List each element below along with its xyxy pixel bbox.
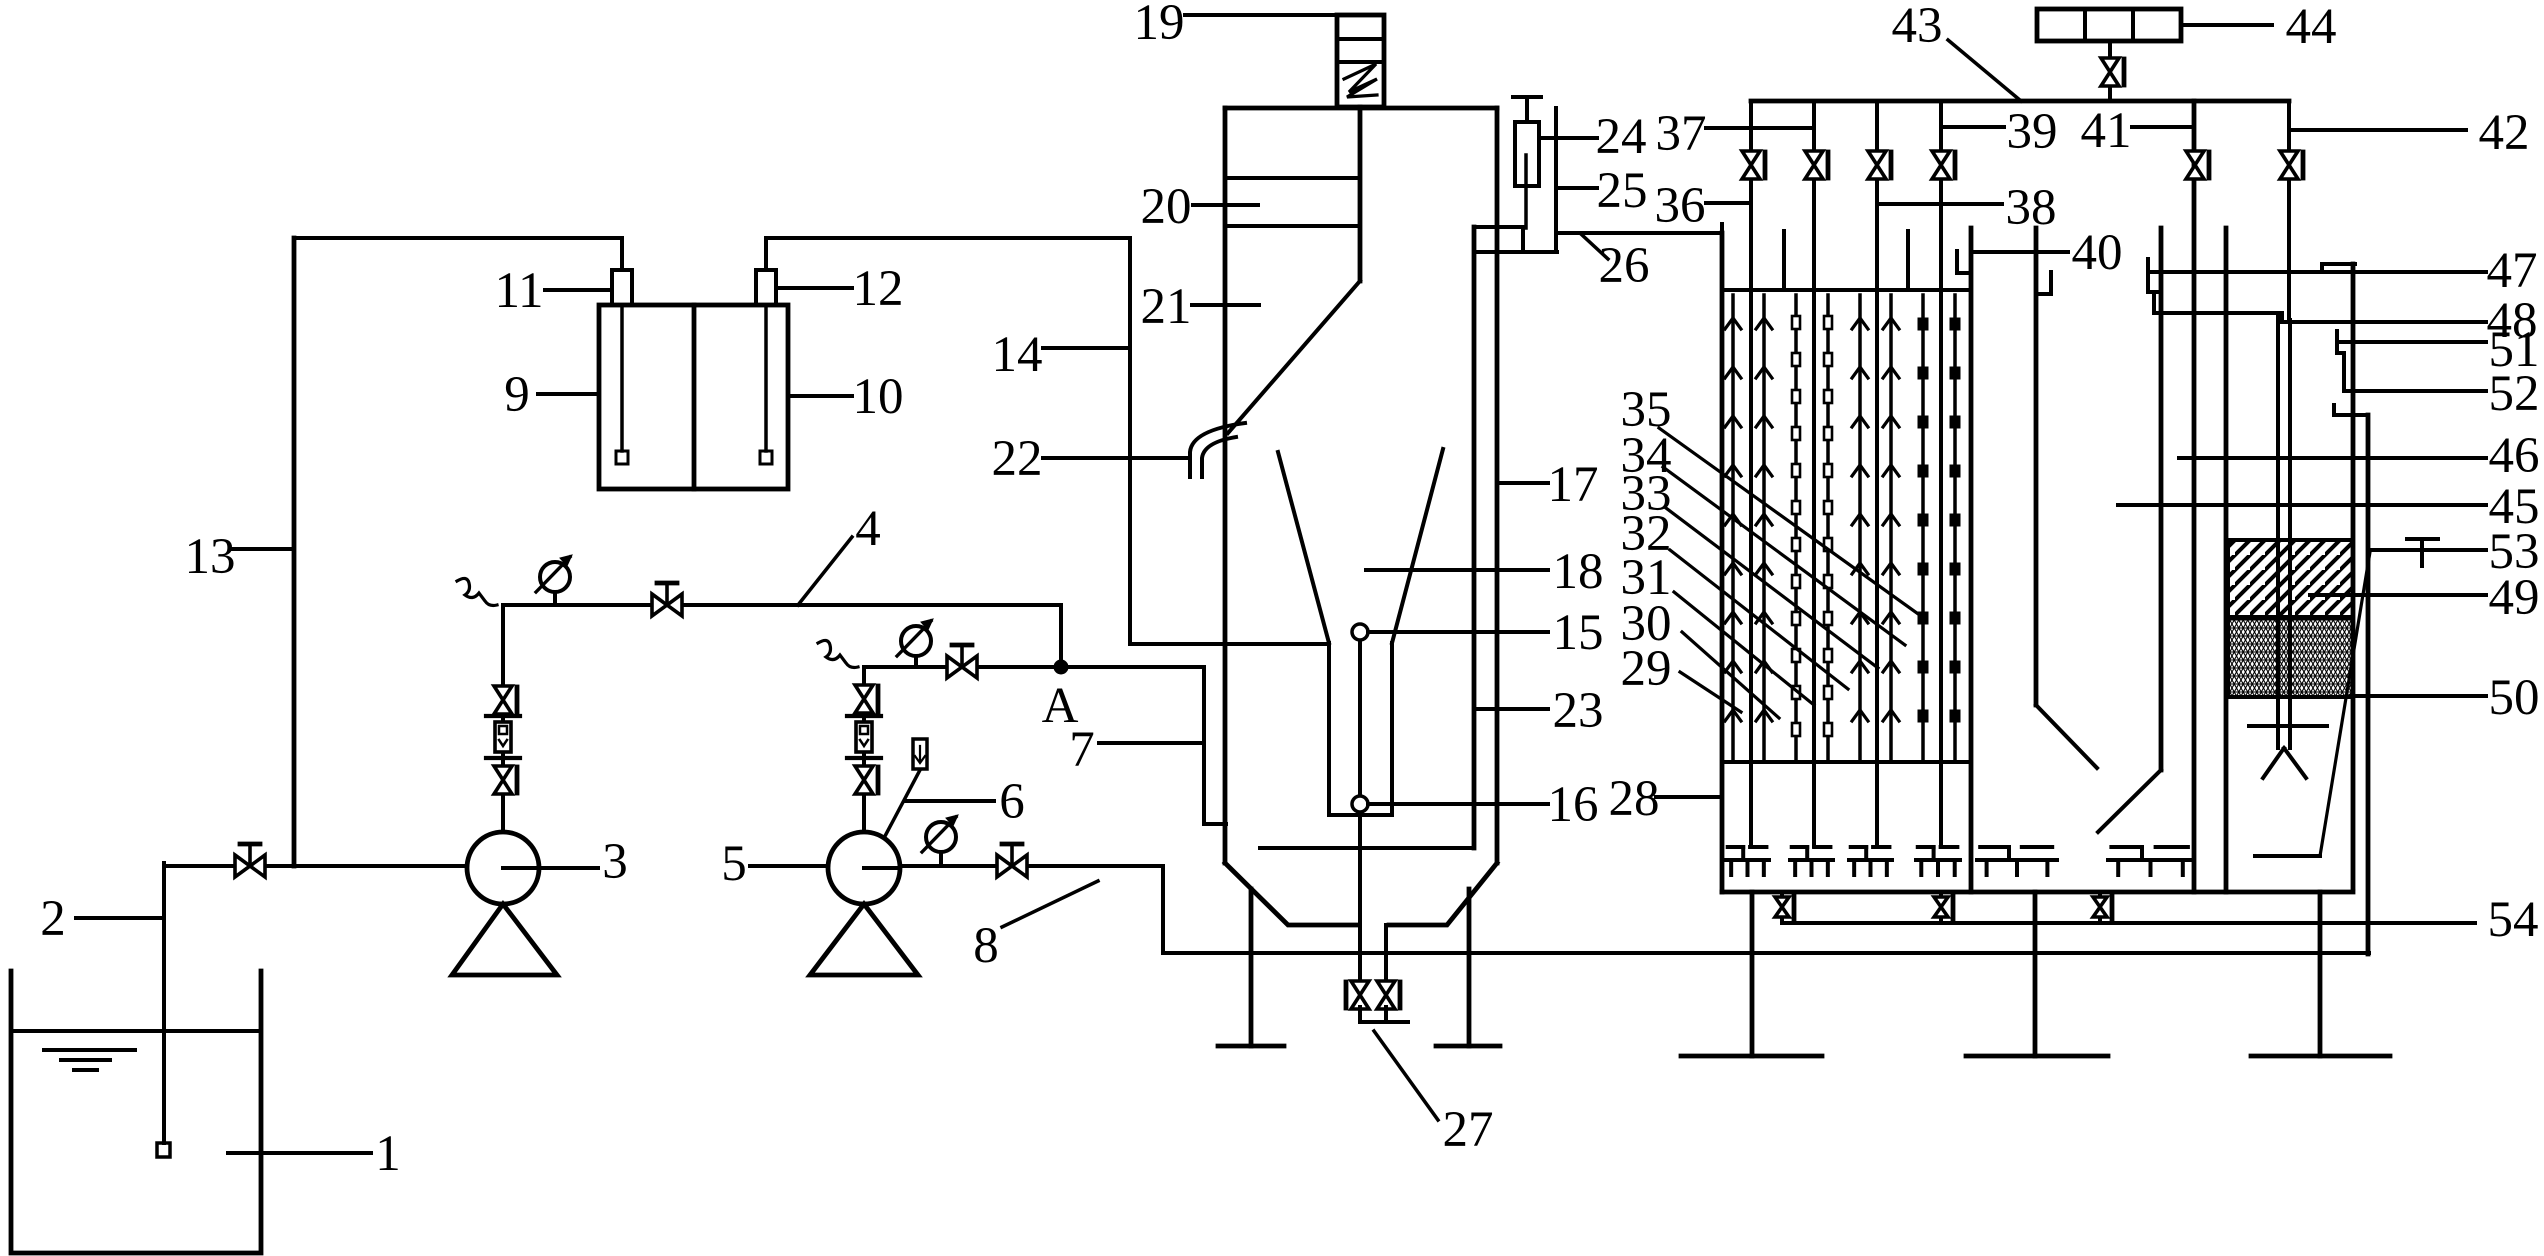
label 32 (1670, 550, 1848, 689)
riser diagonal (1228, 281, 1360, 433)
filter wall top lip (2322, 262, 2355, 266)
drain drop 3 (2098, 892, 2102, 923)
label 21 (1192, 303, 1259, 307)
media top (1722, 288, 1971, 292)
label 28 (1656, 795, 1722, 799)
pump 3 base (452, 904, 557, 975)
feed tank 1 (11, 971, 261, 1253)
drain valve 2 (1934, 897, 1948, 917)
inclined drain pipe (2320, 552, 2370, 856)
backwash pipe pair (2276, 313, 2280, 748)
vent squiggle at pump 3 elbow (457, 578, 497, 605)
label 35 (1659, 428, 1921, 616)
svg-text:18: 18 (1553, 544, 1604, 600)
cell divider (692, 305, 697, 489)
wire from electrode 12 to pipe 14 (766, 236, 1130, 240)
media column at 1891 (1889, 295, 1893, 762)
pump 3 discharge riser (501, 605, 505, 832)
inner compartment bottom (1260, 846, 1474, 850)
basin bottom (1722, 890, 2353, 895)
pump 5 header to node A (864, 665, 1204, 669)
media bottom (1722, 760, 1971, 764)
label 8 (1002, 881, 1098, 927)
air diffuser group at 1849 (1851, 845, 1866, 849)
pressure gauge on line 8 (926, 822, 956, 852)
air drop pipe 38 (1875, 101, 1879, 846)
valve on pipe 37 (1805, 151, 1823, 179)
svg-text:54: 54 (2488, 892, 2539, 948)
valve on pump 5 header (947, 656, 977, 678)
drain valve 1 (1775, 897, 1789, 917)
clarifier outlet trough 47 (2146, 259, 2150, 292)
valve on pipe 36 (1742, 151, 1760, 179)
label 53 with drain tap (2372, 548, 2486, 552)
svg-text:47: 47 (2487, 243, 2538, 299)
label 13 (232, 547, 292, 551)
flame arrester 19 (1337, 15, 1384, 107)
label 43 (1948, 40, 2021, 101)
label 25 (1558, 186, 1597, 190)
label 24 (1541, 136, 1597, 140)
basin left wall (1720, 233, 1725, 892)
node A junction dot (1054, 660, 1068, 674)
svg-text:19: 19 (1134, 0, 1185, 51)
media hanger rods (1782, 231, 1786, 290)
baffle lower diagonal (2036, 705, 2097, 768)
electrode 12 rod (764, 305, 768, 451)
svg-text:9: 9 (504, 367, 530, 423)
valve on pump 3 riser (upper) (494, 686, 512, 714)
air drop pipe 36 (1749, 101, 1753, 846)
media column at 1733 (1731, 295, 1735, 762)
svg-text:26: 26 (1599, 238, 1650, 294)
pressure gauge on line 4 (540, 562, 570, 592)
reactor top edge (1225, 106, 1497, 111)
basin leg left (1750, 892, 1755, 1056)
valve on line 4 (652, 594, 682, 616)
gas flowmeter 44 (2037, 9, 2181, 41)
svg-text:42: 42 (2479, 105, 2530, 161)
line 4 (pump 3 discharge header) (503, 603, 1061, 607)
bottom sludge pipe (2255, 854, 2320, 858)
media column at 1955 (1953, 295, 1957, 762)
svg-text:27: 27 (1443, 1102, 1494, 1158)
pump 5 (828, 832, 900, 904)
label 47 (2148, 270, 2486, 274)
reactor right wall 17 (1495, 108, 1500, 863)
port piping (1474, 225, 1523, 229)
air diffuser group at 1790 (1792, 845, 1807, 849)
outfall pipe hook (2332, 405, 2336, 415)
label 22 (1043, 456, 1188, 460)
filter right wall (2351, 264, 2356, 888)
drain drop 2 (1939, 892, 1943, 923)
electrolysis cell box (599, 305, 788, 489)
svg-text:52: 52 (2489, 366, 2540, 422)
valve on clarifier air pipe (2186, 151, 2204, 179)
svg-text:5: 5 (721, 836, 747, 892)
valve on pump 3 riser (lower) (494, 766, 512, 794)
pump 5 second discharge (line 8) (900, 864, 1163, 868)
svg-text:43: 43 (1892, 0, 1943, 54)
valve on pump 5 riser (lower) (855, 766, 873, 794)
sample port 24 assembly (1515, 122, 1539, 186)
electrode 11 cap (612, 270, 632, 305)
svg-text:16: 16 (1548, 777, 1599, 833)
pipe 14 into reactor (1128, 238, 1132, 644)
label 23 (1477, 707, 1548, 711)
label 37 (1706, 126, 1812, 130)
svg-text:4: 4 (855, 501, 881, 557)
label 16 (1368, 802, 1548, 806)
label 46 (2179, 456, 2486, 460)
pump 5 discharge riser (862, 667, 866, 832)
clarifier inlet baffle (2034, 228, 2039, 705)
svg-text:38: 38 (2006, 180, 2057, 236)
svg-text:46: 46 (2489, 428, 2540, 484)
center draft pipe (1358, 632, 1362, 925)
effluent channel 26 (1557, 231, 1722, 235)
outfall drop pipe (2366, 415, 2371, 954)
label 20 (1193, 203, 1258, 207)
flowmeter drop pipe (2108, 41, 2112, 101)
air diffuser group at 1726 (1728, 845, 1743, 849)
svg-text:37: 37 (1656, 106, 1707, 162)
sampling port 16 (1352, 796, 1368, 812)
line 8 drop (1161, 866, 1165, 953)
air drop pipe 37 (1812, 101, 1816, 846)
label 41 (2132, 125, 2192, 129)
label 36 (1706, 201, 1749, 205)
media column at 1764 (1762, 295, 1766, 762)
valve on pipe 39 (1932, 151, 1950, 179)
drain valve 3 (2093, 897, 2107, 917)
media cell divider (1969, 228, 1974, 892)
electrode 11 rod (620, 305, 624, 451)
svg-text:12: 12 (853, 261, 904, 317)
drain manifold 54 (1780, 892, 1784, 923)
reactor bottom drain pipes (1358, 925, 1362, 984)
label 15 (1368, 630, 1548, 634)
riser divider wall (1358, 107, 1363, 281)
air drop pipe to filter 41 (2287, 101, 2291, 320)
svg-text:24: 24 (1596, 109, 1647, 165)
outlet downpipe 48 (2152, 294, 2156, 313)
valve on pipe 38 (1868, 151, 1886, 179)
label 44 (2184, 23, 2272, 27)
sampling port 15 (1352, 624, 1368, 640)
suction pipe from tank 1 (162, 863, 166, 1143)
svg-text:2: 2 (40, 891, 66, 947)
label 4 (798, 537, 852, 605)
svg-text:17: 17 (1548, 457, 1599, 513)
svg-text:20: 20 (1141, 179, 1192, 235)
drain valve left 27 (1351, 981, 1369, 1009)
label 17 (1497, 481, 1548, 485)
svg-text:1: 1 (375, 1126, 401, 1182)
valve on suction line (235, 855, 265, 877)
suction line to pump 3 (164, 864, 467, 868)
media column at 1796 (1794, 295, 1798, 762)
svg-text:40: 40 (2072, 225, 2123, 281)
drain valve right 27 (1377, 981, 1395, 1009)
clarifier trough (2049, 272, 2053, 294)
label 39 (1943, 125, 2004, 129)
water level in tank 1 (11, 1029, 261, 1033)
label 40 (1973, 250, 2068, 254)
air drop pipe to clarifier (2192, 101, 2197, 892)
line 4 drop to node A (1059, 605, 1063, 667)
label 26 (1581, 234, 1608, 259)
label 33 (1666, 508, 1878, 668)
label 10 (790, 394, 852, 398)
label 2 (76, 916, 162, 920)
basin leg right (2318, 892, 2323, 1056)
pressure gauge on pump 5 header (901, 626, 931, 656)
fine packing 50 (2228, 618, 2353, 697)
label 6 pointer (884, 770, 920, 838)
label 29 (1680, 672, 1741, 712)
svg-text:25: 25 (1597, 163, 1648, 219)
support plate (2249, 724, 2327, 728)
label 18 (1366, 568, 1548, 572)
node: junction of line 13 (292, 238, 297, 866)
label 45 (2118, 503, 2486, 507)
valve on line 8 (997, 855, 1027, 877)
svg-text:22: 22 (992, 431, 1043, 487)
svg-text:15: 15 (1553, 605, 1604, 661)
label 3 (539, 866, 598, 870)
reactor legs (1249, 889, 1254, 1046)
gas plates 20 (1225, 176, 1360, 180)
svg-text:28: 28 (1609, 771, 1660, 827)
svg-text:7: 7 (1069, 722, 1095, 778)
reactor left wall (1223, 108, 1228, 863)
svg-text:8: 8 (973, 918, 999, 974)
svg-text:21: 21 (1141, 279, 1192, 335)
label 38 (1879, 202, 2002, 206)
label 34 (1663, 467, 1905, 645)
label 48 (2282, 320, 2486, 324)
valve under flowmeter (2101, 58, 2119, 86)
svg-text:23: 23 (1553, 683, 1604, 739)
rotameter on pump 3 riser (486, 714, 520, 718)
air diffuser group at 1916 (1918, 845, 1934, 849)
clarifier right wall (2159, 228, 2164, 770)
valve on pump 5 riser (upper) (855, 685, 873, 713)
svg-text:6: 6 (999, 774, 1025, 830)
air diffuser group at 1977 (1980, 845, 2009, 849)
pump 5 base (810, 904, 918, 975)
label 42 (2291, 128, 2466, 132)
valve on filter air pipe (2280, 151, 2298, 179)
label 7 (1099, 741, 1202, 745)
coarse packing 49 (2228, 540, 2353, 617)
filter tank left wall (2224, 228, 2229, 892)
label 19 (1185, 13, 1337, 17)
svg-text:14: 14 (992, 327, 1043, 383)
media column at 1923 (1921, 295, 1925, 762)
svg-text:11: 11 (494, 263, 543, 319)
svg-text:3: 3 (602, 834, 628, 890)
electrode 12 cap (756, 270, 776, 305)
svg-text:35: 35 (1621, 382, 1672, 438)
label 1 (228, 1151, 371, 1155)
label 52 (2344, 389, 2486, 393)
svg-text:50: 50 (2489, 670, 2540, 726)
line 8 long bottom run (1163, 951, 2369, 955)
label 12 (778, 286, 852, 290)
label 11 (545, 288, 610, 292)
reactor cone bottom (1225, 863, 1497, 925)
weir trough 40 (1955, 251, 1959, 273)
rotameter 6 on pump 5 riser (847, 714, 881, 718)
label 5 (750, 864, 828, 868)
svg-text:39: 39 (2007, 104, 2058, 160)
drain outlet (1358, 1007, 1362, 1021)
label 31 (1674, 592, 1814, 705)
label 14 (1043, 346, 1128, 350)
wire from line 13 to electrode 11 (294, 236, 622, 240)
media column at 1828 (1826, 295, 1830, 762)
label 27 (1374, 1031, 1438, 1120)
pipe from node A down to reactor bottom inlet (1202, 667, 1206, 824)
label 30 (1682, 632, 1779, 718)
hook 51/52 (2335, 331, 2339, 353)
distributor Y (2263, 748, 2306, 778)
air drop pipe 39 (1939, 101, 1943, 846)
label 51 (2337, 340, 2486, 344)
pump 3 (467, 832, 539, 904)
label 9 (538, 392, 597, 396)
label 49 (2310, 593, 2486, 597)
label 50 (2351, 694, 2486, 698)
svg-text:44: 44 (2286, 0, 2337, 55)
bent outlet pipe 22 (1190, 423, 1245, 477)
internal funnel 18 (1278, 452, 1329, 643)
svg-text:36: 36 (1655, 178, 1706, 234)
basin leg middle (2033, 892, 2038, 1056)
inner wall 23 (1472, 227, 1477, 848)
svg-text:13: 13 (185, 529, 236, 585)
air diffuser group at 2108 (2111, 845, 2142, 849)
clarifier hopper diagonal (2098, 770, 2161, 832)
svg-text:10: 10 (853, 369, 904, 425)
svg-text:41: 41 (2081, 103, 2132, 159)
vent squiggle at pump 5 elbow (818, 640, 858, 667)
media column at 1860 (1858, 295, 1862, 762)
svg-text:49: 49 (2489, 570, 2540, 626)
gas manifold 43 (1751, 99, 2289, 104)
